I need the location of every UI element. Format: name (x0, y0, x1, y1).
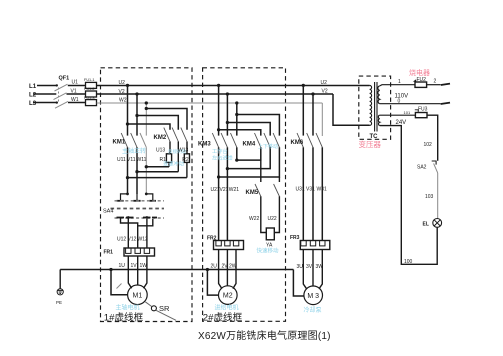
svg-text:W21: W21 (229, 187, 240, 193)
svg-text:U12: U12 (117, 237, 126, 243)
svg-text:主轴电机: 主轴电机 (116, 303, 140, 311)
svg-text:24V: 24V (396, 120, 407, 126)
svg-text:左右进给: 左右进给 (212, 154, 233, 162)
svg-text:V12: V12 (128, 237, 137, 243)
svg-text:V1: V1 (71, 88, 77, 94)
svg-text:1V: 1V (131, 263, 138, 269)
svg-text:2V: 2V (222, 264, 229, 270)
svg-text:变速冲动: 变速冲动 (163, 160, 184, 168)
svg-text:M2: M2 (223, 293, 233, 300)
svg-text:L2: L2 (29, 92, 37, 99)
svg-text:3W: 3W (316, 264, 324, 270)
svg-text:YA: YA (266, 242, 273, 248)
svg-text:上下移动: 上下移动 (258, 143, 278, 150)
svg-text:2#虚线框: 2#虚线框 (203, 311, 243, 323)
svg-text:KM2: KM2 (154, 135, 167, 141)
svg-text:R2: R2 (182, 157, 189, 163)
svg-text:103: 103 (425, 194, 434, 200)
svg-text:V11: V11 (127, 157, 136, 163)
svg-text:102: 102 (424, 142, 433, 148)
svg-text:1: 1 (398, 79, 401, 85)
svg-text:W31: W31 (317, 186, 328, 192)
svg-text:U31: U31 (296, 186, 305, 192)
svg-text:EL: EL (423, 222, 429, 228)
svg-text:KM1: KM1 (113, 139, 126, 145)
svg-text:V2: V2 (322, 89, 328, 95)
svg-text:SR: SR (159, 304, 170, 313)
svg-text:FU2: FU2 (417, 77, 427, 83)
svg-text:W11: W11 (137, 157, 147, 163)
svg-text:M 3: M 3 (307, 293, 319, 300)
svg-text:X62W万能铣床电气原理图(1): X62W万能铣床电气原理图(1) (198, 329, 331, 342)
svg-text:KM6: KM6 (291, 140, 304, 146)
svg-text:KM3: KM3 (198, 141, 211, 147)
svg-text:SA4: SA4 (103, 208, 113, 214)
svg-text:烧电器: 烧电器 (409, 68, 430, 77)
svg-text:FR3: FR3 (290, 235, 300, 241)
svg-text:FU3: FU3 (418, 107, 428, 113)
svg-text:3U: 3U (297, 264, 304, 270)
svg-text:KM5: KM5 (246, 190, 259, 196)
svg-text:FU1-2: FU1-2 (84, 87, 95, 91)
svg-text:1U: 1U (119, 263, 126, 269)
svg-text:进给电机: 进给电机 (215, 303, 239, 311)
svg-text:U2: U2 (321, 80, 328, 86)
svg-text:U1: U1 (72, 80, 79, 86)
svg-text:冷却泵: 冷却泵 (304, 306, 322, 314)
svg-text:TC: TC (370, 134, 379, 140)
svg-text:V21: V21 (220, 187, 229, 193)
svg-text:U22: U22 (268, 216, 277, 222)
svg-text:变压器: 变压器 (359, 139, 382, 149)
svg-text:101: 101 (404, 110, 411, 115)
svg-text:2W: 2W (229, 264, 237, 270)
svg-text:FU1-1: FU1-1 (84, 78, 95, 82)
svg-text:SA2: SA2 (417, 164, 427, 170)
svg-text:W1: W1 (71, 97, 79, 103)
svg-text:L1: L1 (29, 83, 37, 90)
svg-text:W13: W13 (178, 148, 189, 154)
svg-text:100: 100 (404, 259, 413, 265)
svg-text:U21: U21 (211, 187, 220, 193)
svg-text:1W: 1W (140, 263, 148, 269)
svg-text:U13: U13 (156, 148, 165, 154)
svg-text:M1: M1 (133, 292, 143, 299)
svg-text:QF1: QF1 (59, 75, 70, 81)
svg-text:2: 2 (434, 79, 437, 85)
svg-text:L3: L3 (29, 100, 37, 107)
svg-text:PE: PE (56, 300, 62, 305)
svg-text:KM4: KM4 (243, 141, 256, 147)
svg-text:2U: 2U (211, 264, 218, 270)
svg-text:主轴正转: 主轴正转 (122, 147, 146, 155)
svg-text:1#虚线框: 1#虚线框 (104, 311, 144, 323)
svg-text:工作台: 工作台 (212, 147, 228, 155)
svg-text:W12: W12 (138, 237, 149, 243)
svg-text:U2: U2 (119, 80, 126, 86)
svg-text:V31: V31 (306, 186, 315, 192)
svg-text:W2: W2 (119, 97, 127, 103)
svg-text:3V: 3V (306, 264, 313, 270)
svg-text:W22: W22 (249, 216, 260, 222)
svg-text:FU1-3: FU1-3 (84, 96, 95, 100)
svg-text:FR2: FR2 (207, 235, 217, 241)
svg-text:0: 0 (398, 98, 401, 104)
svg-text:V2: V2 (119, 89, 125, 95)
svg-text:R1: R1 (160, 157, 167, 163)
svg-text:U11: U11 (117, 157, 126, 163)
svg-text:FR1: FR1 (104, 249, 114, 255)
